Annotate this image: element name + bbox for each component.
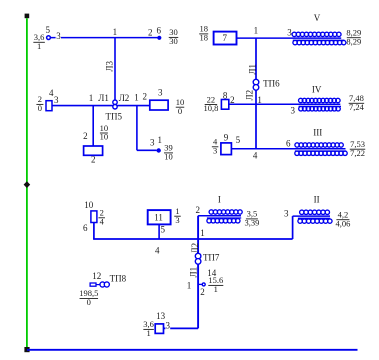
wire: mid line from box 8 to coil IV	[229, 103, 341, 105]
svg-text:0: 0	[178, 106, 182, 116]
wire: stub to node 14	[198, 283, 202, 285]
pin 1 below corner	[200, 228, 205, 238]
pin 6 at coil III	[286, 139, 291, 149]
svg-text:I: I	[218, 194, 221, 204]
svg-text:30: 30	[169, 36, 178, 46]
transformer TP6 (two circles)	[253, 79, 259, 90]
pin 3	[56, 31, 61, 41]
pin 1 (junction to load 2)	[89, 93, 94, 103]
net label L2 (rotated)	[190, 243, 200, 254]
pin 1	[157, 135, 162, 145]
winding IV label	[312, 84, 322, 94]
pin 2 (branch)	[83, 131, 88, 141]
value label 4,2/4,06	[335, 210, 350, 229]
wire: box 11 drop	[158, 224, 160, 239]
winding I label	[218, 194, 221, 204]
node: bottom terminal square	[24, 347, 29, 352]
value label 2/4	[98, 208, 105, 227]
component: load box 13	[155, 324, 163, 334]
value label 18/18	[199, 24, 208, 43]
label TP5	[106, 112, 123, 122]
pin 10	[84, 200, 94, 210]
node: source terminal square (top of feeder)	[25, 14, 30, 19]
label TP8	[110, 274, 127, 284]
pin 2	[148, 28, 153, 38]
value label 3,6/1	[143, 319, 154, 338]
component: load box 9	[221, 143, 232, 155]
wire gap under pin 3	[56, 36, 61, 40]
transformer TP5 (two circles)	[113, 100, 117, 109]
component: TP8 box	[90, 283, 96, 286]
svg-text:1: 1	[134, 92, 139, 102]
value label 198,5/0	[79, 288, 98, 307]
value label 3,5/3,39	[244, 209, 259, 228]
wire: lead to coil I	[198, 215, 241, 217]
svg-text:8,29: 8,29	[346, 36, 361, 46]
svg-text:3: 3	[291, 106, 296, 116]
svg-text:ТП8: ТП8	[110, 274, 127, 284]
wire: bottom horizontal bus	[27, 349, 358, 351]
wire: green feeder line (left vertical)	[26, 18, 28, 347]
svg-text:1: 1	[254, 25, 259, 35]
wire: top feeder line (node 3 to node 6)	[50, 37, 158, 39]
pin 3	[54, 95, 59, 105]
svg-text:3: 3	[284, 208, 289, 218]
wire: branch down-right to node 1	[137, 106, 157, 151]
svg-text:2: 2	[91, 154, 96, 164]
svg-text:5: 5	[45, 25, 50, 35]
pin 5	[160, 224, 165, 234]
pin 5	[45, 25, 50, 35]
svg-text:1: 1	[214, 284, 218, 294]
inductor coil III	[295, 143, 347, 156]
component: source box 7	[214, 32, 237, 45]
component: load box node 4 (left)	[46, 101, 52, 111]
wire: TP8 stub	[96, 284, 100, 286]
svg-text:1: 1	[37, 41, 41, 51]
value label 1/3	[174, 206, 181, 225]
pin 1 (top junction)	[113, 27, 118, 37]
pin 5	[236, 135, 241, 145]
svg-text:8: 8	[223, 91, 228, 101]
svg-text:1: 1	[187, 280, 192, 290]
value label 30/30 at node 6	[169, 27, 179, 46]
svg-text:7,22: 7,22	[350, 148, 365, 158]
node: feeder midpoint diamond	[24, 181, 31, 188]
inductor coil IV	[299, 98, 342, 111]
svg-text:3: 3	[166, 321, 171, 331]
svg-text:6: 6	[286, 139, 291, 149]
component: load box 10 (small vertical)	[91, 211, 97, 223]
pin 3 at coil IV	[291, 106, 296, 116]
pin 4 (bottom junction)	[253, 150, 258, 160]
value label 22/10,8	[203, 94, 218, 113]
value label 2/0	[36, 94, 43, 113]
svg-text:4: 4	[100, 216, 105, 226]
svg-text:2: 2	[230, 95, 235, 105]
value label 15.6/1	[208, 275, 223, 294]
label 11 in box	[154, 213, 163, 223]
svg-text:7,24: 7,24	[349, 102, 365, 112]
pin 3 at coil II	[284, 208, 289, 218]
net label L2	[119, 93, 130, 103]
inductor coil V	[292, 32, 346, 45]
svg-text:2: 2	[195, 205, 200, 215]
svg-text:1: 1	[146, 328, 150, 338]
wire gap under pin 3 (box13)	[165, 326, 170, 330]
pin 1 (mid junction)	[257, 95, 262, 105]
svg-text:3,39: 3,39	[244, 218, 259, 228]
wire: line from box 13 to vertical	[164, 327, 199, 329]
node: source circle node 5	[47, 36, 51, 40]
net label L1 (rotated)	[189, 267, 199, 278]
wire: main vertical through TP6	[255, 38, 257, 149]
winding III label	[313, 127, 322, 137]
svg-text:ТП6: ТП6	[263, 79, 280, 89]
wire: bottom line from box 9 to coil III	[232, 148, 346, 150]
label TP7	[203, 252, 220, 262]
pin 2	[142, 92, 147, 102]
value label 39/10	[164, 143, 173, 162]
svg-text:6: 6	[157, 26, 162, 36]
svg-text:III: III	[313, 127, 322, 137]
pin 6	[157, 26, 162, 36]
svg-text:V: V	[314, 13, 321, 23]
svg-text:IV: IV	[312, 84, 322, 94]
transformer TP8 (two circles horizontal)	[100, 282, 109, 287]
svg-text:18: 18	[199, 33, 208, 43]
svg-text:3: 3	[54, 95, 59, 105]
label TP6	[263, 79, 280, 89]
wire: branch L3 vertical	[114, 38, 116, 101]
pin 2	[200, 287, 205, 297]
wire: branch down to load 2	[92, 106, 94, 147]
svg-text:Л2: Л2	[119, 93, 130, 103]
svg-text:ТП7: ТП7	[203, 252, 220, 262]
value label 10/10	[100, 123, 109, 142]
svg-text:Л3: Л3	[105, 61, 115, 72]
pin 13	[156, 311, 166, 321]
value label 8,29/8,29	[346, 28, 361, 47]
value label 3,6/1 at node 5	[33, 32, 45, 51]
pin 8	[223, 91, 228, 101]
pin 6	[83, 223, 88, 233]
svg-text:11: 11	[154, 213, 163, 223]
svg-text:10: 10	[84, 200, 94, 210]
component: load box 3 (right)	[150, 100, 168, 110]
pin 2 at coil I corner	[195, 205, 200, 215]
svg-text:3: 3	[287, 28, 292, 38]
inductor coil I	[207, 210, 242, 223]
inductor coil II	[298, 210, 332, 223]
net label L1 (rotated)	[248, 64, 258, 75]
component: load box 8	[221, 100, 228, 110]
svg-text:3: 3	[56, 31, 61, 41]
node: terminal dot node 6	[157, 36, 161, 40]
svg-text:4: 4	[155, 246, 160, 256]
svg-text:1: 1	[157, 135, 162, 145]
net label L3 (rotated)	[105, 61, 115, 72]
svg-text:2: 2	[148, 28, 153, 38]
component: source box 11	[148, 210, 171, 224]
svg-text:2: 2	[83, 131, 88, 141]
svg-text:Л1: Л1	[248, 64, 258, 75]
svg-text:13: 13	[156, 311, 166, 321]
pin 1	[134, 92, 139, 102]
svg-text:10: 10	[164, 152, 173, 162]
wire: from box 10 down and right (main low line)	[93, 223, 293, 240]
svg-text:Л2: Л2	[244, 90, 254, 101]
pin 4 below line	[155, 246, 160, 256]
svg-text:0: 0	[38, 103, 42, 113]
svg-text:4,06: 4,06	[335, 218, 350, 228]
node: terminal dot (39/10)	[157, 148, 161, 152]
svg-text:6: 6	[83, 223, 88, 233]
svg-text:1: 1	[113, 27, 118, 37]
pin 3	[166, 321, 171, 331]
svg-text:12: 12	[92, 271, 101, 281]
svg-text:1: 1	[200, 228, 205, 238]
svg-text:Л2: Л2	[190, 243, 200, 254]
pin 4	[49, 88, 54, 98]
pin 1	[187, 280, 192, 290]
wire: line from box 7 to coil V	[237, 37, 342, 39]
value label 7,48/7,24	[349, 93, 365, 112]
label 7 in box	[223, 33, 228, 43]
wire: lead to coil II (L-shape)	[293, 216, 330, 239]
svg-text:5: 5	[160, 224, 165, 234]
svg-text:3: 3	[150, 137, 155, 147]
pin 3 (branch)	[150, 137, 155, 147]
transformer TP7 (two circles)	[195, 253, 201, 264]
pin 14	[207, 268, 217, 278]
svg-text:Л1: Л1	[98, 93, 109, 103]
wire: main vertical through TP7	[197, 216, 199, 329]
winding V label	[314, 13, 321, 23]
svg-text:2: 2	[142, 92, 147, 102]
svg-text:9: 9	[224, 132, 229, 142]
svg-text:ТП5: ТП5	[106, 112, 123, 122]
net label L1	[98, 93, 109, 103]
svg-text:3: 3	[158, 88, 163, 98]
svg-text:Л1: Л1	[189, 267, 199, 278]
svg-text:3: 3	[213, 145, 217, 155]
label 2 below box	[91, 154, 96, 164]
pin 9	[224, 132, 229, 142]
pin 3 at coil V	[287, 28, 292, 38]
value label 10/0	[176, 97, 185, 116]
svg-text:10,8: 10,8	[203, 103, 218, 113]
value label 4/3	[212, 137, 219, 156]
svg-text:3: 3	[175, 215, 179, 225]
value label 7,53/7,22	[350, 139, 366, 158]
svg-text:10: 10	[100, 132, 109, 142]
svg-text:2: 2	[200, 287, 205, 297]
svg-text:0: 0	[87, 297, 91, 307]
pin 12	[92, 271, 101, 281]
wire: distribution line through TP5	[52, 105, 150, 107]
svg-text:4: 4	[253, 150, 258, 160]
pin 1 (top junction)	[254, 25, 259, 35]
svg-text:1: 1	[89, 93, 94, 103]
pin 3 above box 3	[158, 88, 163, 98]
node: open circle node 14	[202, 283, 205, 286]
winding II label	[314, 194, 320, 204]
net label L2 (rotated)	[244, 90, 254, 101]
svg-text:7: 7	[223, 33, 228, 43]
svg-text:5: 5	[236, 135, 241, 145]
svg-text:II: II	[314, 194, 320, 204]
component: load box 2	[84, 146, 103, 155]
pin 2	[230, 95, 235, 105]
svg-text:1: 1	[257, 95, 262, 105]
